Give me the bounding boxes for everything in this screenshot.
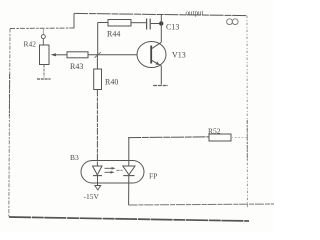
svg-text:C13: C13 <box>166 23 179 32</box>
svg-text:R44: R44 <box>107 30 120 39</box>
svg-text:R40: R40 <box>105 78 118 87</box>
svg-text:-15V: -15V <box>84 192 100 201</box>
svg-text:V13: V13 <box>172 51 186 60</box>
svg-text:R52: R52 <box>208 127 221 136</box>
svg-text:R42: R42 <box>24 40 37 49</box>
svg-text:R43: R43 <box>70 62 83 71</box>
svg-text:output: output <box>186 9 204 17</box>
svg-text:B3: B3 <box>70 153 79 162</box>
svg-text:FP: FP <box>149 172 157 181</box>
